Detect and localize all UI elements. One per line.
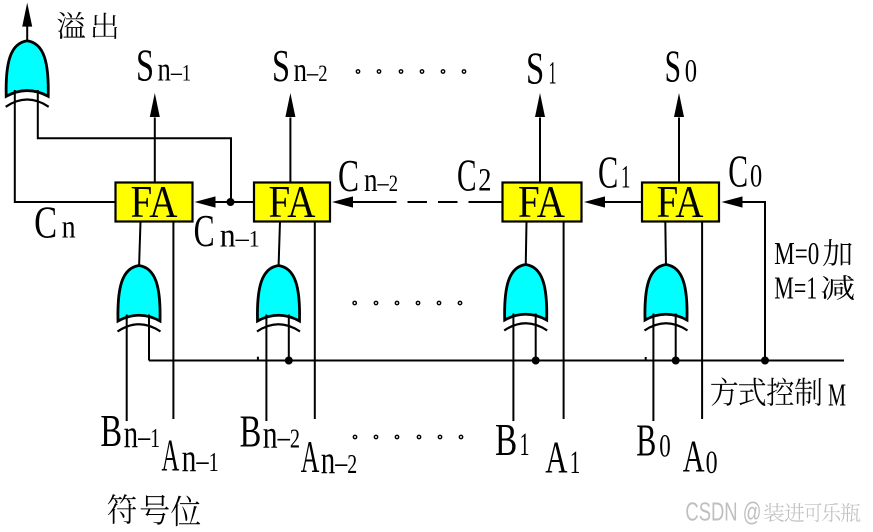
svg-text:S: S [526,44,544,94]
wire Cn from FA1 carry-out to G5 left input [15,90,116,202]
full adder FA1 (bit n-1) [116,183,193,222]
wire FA output pin to xor G2 [279,222,281,269]
xor gate G4 [645,265,688,331]
wire overflow output [26,18,28,41]
wire sum output Sn-1 [154,118,156,183]
node M tap G3 [532,357,540,365]
svg-text:CSDN @: CSDN @ [685,497,761,527]
label 方式控制M [711,378,737,406]
wire Cn-1 feedback to G5 right input [38,90,231,202]
wire FA output pin to xor G3 [525,222,528,268]
svg-text:0: 0 [750,159,762,195]
wire carry C0 segment from mode line [743,202,766,361]
wire carry C1 segment [605,201,642,203]
carry arrowhead into FA4 [722,196,743,207]
label 溢出 (overflow) [57,12,85,39]
wire A input line at G3 [563,222,565,420]
svg-text:A: A [683,432,705,482]
arrowhead sum output Sn-1 [150,93,160,117]
wire FA output pin to xor G4 [664,222,667,268]
svg-text:C: C [194,206,215,256]
wire M tap of G2 [288,315,290,361]
wire mode control M bus [149,360,844,362]
xor gate G3 [504,265,547,331]
wire sum output Sn-2 [289,118,291,183]
xor gate G1 [118,266,161,332]
svg-text:1: 1 [570,445,581,481]
wire carry Cn-1 segment [216,201,255,203]
svg-text:0: 0 [659,428,671,464]
svg-text:0: 0 [706,445,718,481]
wire M tap of G3 [535,314,537,361]
full adder FA3 (bit 1) [503,183,582,222]
carry arrowhead into FA3 [584,196,605,207]
xor gate G2 [257,266,300,332]
ellipsis dots bottom row [353,435,356,438]
arrowhead sum output S0 [674,93,684,117]
svg-text:C: C [728,147,748,197]
xor gate G5 overflow detector [6,41,49,107]
full adder FA4 (bit 0) [642,183,719,222]
wire M tap of G4 [675,314,677,361]
wire sum output S1 [539,118,541,183]
svg-text:C: C [338,151,359,201]
svg-text:S: S [665,41,681,91]
wire A input line at G4 [701,222,703,420]
node M to C0 junction [761,357,769,365]
svg-text:S: S [136,41,154,91]
wire B input of G4 [652,314,654,422]
full adder FA2 (bit n-2) [254,183,330,222]
svg-text:M=1: M=1 [774,270,817,306]
svg-text:2: 2 [478,162,491,198]
svg-text:FA: FA [518,177,565,227]
svg-text:M: M [828,377,846,413]
svg-text:C: C [34,198,57,248]
svg-text:M=0: M=0 [774,235,819,271]
arrowhead sum output Sn-2 [285,93,295,117]
wire M tap of G1 [148,315,150,361]
svg-text:1: 1 [520,427,530,463]
carry arrowhead into FA2 [332,196,353,207]
artifact tick on M bus near B0 [645,357,647,360]
wire B input of G3 [512,314,514,422]
svg-text:B: B [495,415,517,465]
svg-text:0: 0 [685,54,697,90]
svg-text:A: A [162,431,180,481]
wire carry dashed segment [408,201,503,203]
svg-text:FA: FA [657,177,704,227]
wire carry Cn-2 solid segment [353,201,397,203]
svg-text:S: S [272,41,290,91]
svg-text:FA: FA [269,177,316,227]
svg-text:B: B [100,406,122,456]
wire A input line at G2 [314,222,316,420]
wire FA output pin to xor G1 [139,222,141,269]
svg-text:1: 1 [549,56,557,92]
node M tap G2 [285,357,293,365]
svg-text:1: 1 [621,160,630,196]
wire B input of G2 [265,315,267,422]
carry arrowhead into FA1 [195,196,216,207]
node Cn-1 junction [227,198,235,206]
svg-text:FA: FA [131,177,178,227]
wire B input of G1 [126,315,128,422]
overflow output arrowhead [22,3,32,27]
label 符号位 (sign bit) [108,494,136,524]
svg-text:n: n [62,210,76,246]
svg-text:B: B [240,407,262,457]
wire sum output S0 [678,118,680,183]
svg-text:A: A [545,433,568,483]
artifact tick on M bus near Bn-2 [257,357,259,360]
ellipsis dots middle row [353,301,356,304]
wire A input line at G1 [172,222,174,420]
ellipsis dots top row [356,70,359,73]
svg-text:A: A [301,432,320,482]
node M tap G4 [672,357,680,365]
svg-text:C: C [457,150,477,200]
svg-text:C: C [598,148,618,198]
svg-text:B: B [636,416,656,466]
arrowhead sum output S1 [535,93,545,117]
